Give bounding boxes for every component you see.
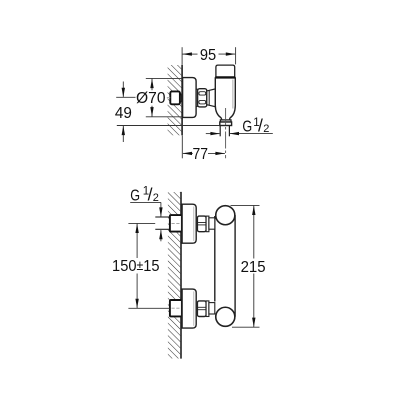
bottom hex nut bbox=[197, 301, 206, 317]
svg-text:77: 77 bbox=[192, 146, 208, 163]
valve body (top view) bbox=[215, 78, 235, 120]
svg-text:Ø70: Ø70 bbox=[136, 90, 166, 107]
top square nut behind wall bbox=[170, 215, 182, 232]
top pivot circle bbox=[216, 206, 235, 225]
svg-text:/: / bbox=[258, 116, 263, 136]
cylinder body bbox=[214, 216, 216, 302]
bottom square nut behind wall bbox=[170, 300, 182, 316]
wall hatch (bottom view) bbox=[168, 192, 180, 359]
svg-text:150±15: 150±15 bbox=[112, 258, 160, 275]
bottom escutcheon bbox=[182, 289, 196, 328]
dimension 150±15 bbox=[128, 222, 155, 224]
dimension 77 bbox=[181, 136, 183, 159]
top hex nut bbox=[197, 216, 206, 232]
escutcheon (top view, Ø70) bbox=[183, 78, 197, 118]
svg-text:215: 215 bbox=[241, 259, 266, 276]
body highlight line bbox=[232, 80, 234, 109]
top cap bbox=[216, 65, 235, 78]
svg-text:G: G bbox=[242, 119, 252, 136]
hex nut (top view) bbox=[198, 89, 207, 107]
dimension Ø70 bbox=[146, 77, 182, 79]
adapter cone bbox=[207, 89, 216, 107]
wall line (top view) bbox=[181, 65, 183, 136]
svg-text:95: 95 bbox=[200, 47, 216, 64]
dimension 95 bbox=[181, 47, 183, 64]
svg-text:49: 49 bbox=[115, 105, 132, 122]
bottom neck bbox=[206, 301, 209, 317]
G 1/2 leader + arrows (bottom view) bbox=[130, 201, 161, 203]
outlet centerline bbox=[225, 108, 227, 158]
G 1/2 dimension arrows (top view) bbox=[206, 133, 220, 135]
top neck bbox=[206, 216, 209, 232]
top supply pipe G1/2 bbox=[155, 216, 170, 218]
top escutcheon bbox=[182, 204, 196, 243]
wall hatch (top view) bbox=[168, 65, 182, 135]
dimension 215 bbox=[231, 204, 260, 206]
concealed union box behind wall bbox=[178, 94, 181, 102]
outlet tube G1/2 bbox=[219, 126, 221, 136]
union barrel between escutcheon and nut bbox=[196, 88, 198, 90]
wall line (bottom view) bbox=[180, 192, 182, 359]
cap bottom thick line bbox=[215, 76, 235, 78]
dimension 49 bbox=[116, 96, 135, 98]
outlet collar bbox=[220, 120, 231, 122]
svg-text:2: 2 bbox=[263, 123, 269, 135]
centerline stub left of box bbox=[167, 97, 170, 99]
bottom pivot circle bbox=[216, 307, 235, 326]
